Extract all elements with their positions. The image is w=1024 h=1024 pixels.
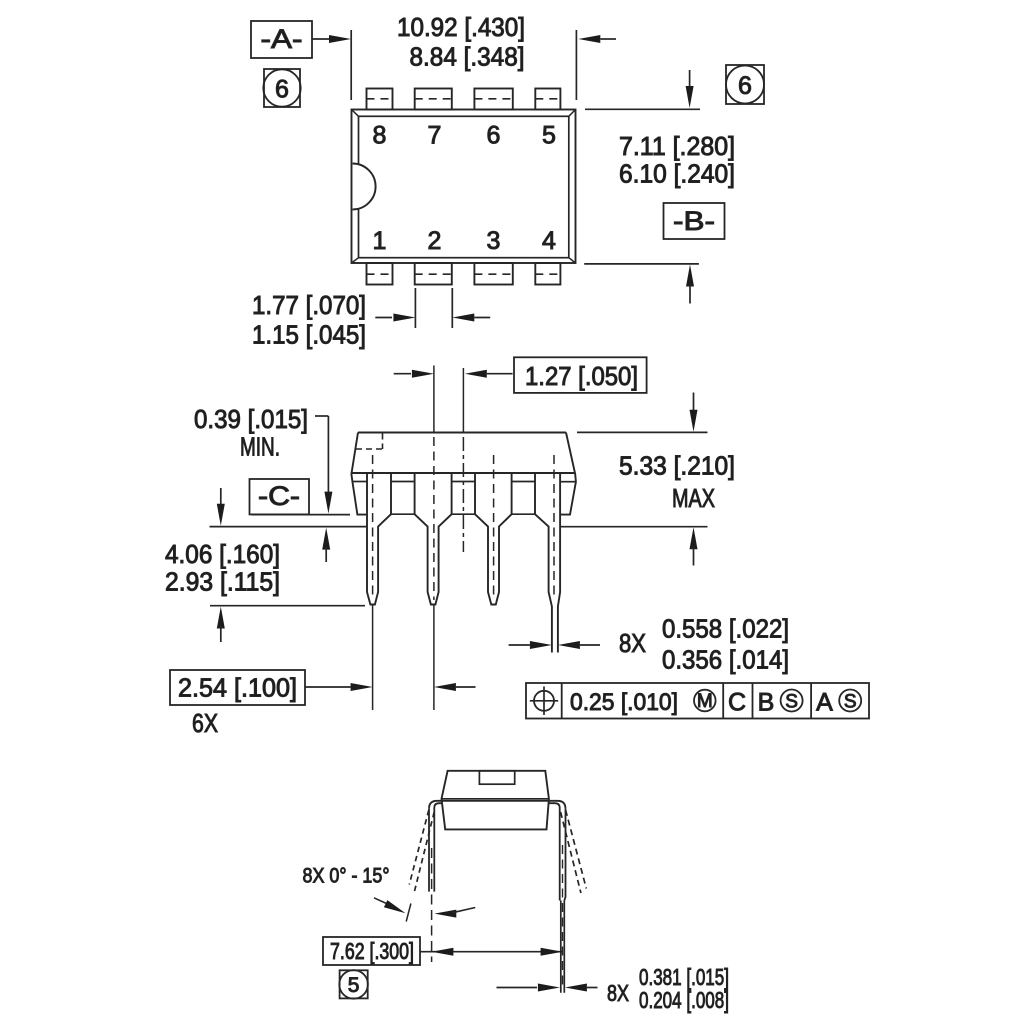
side view: body bottom datum line (252, 514, 351, 516)
svg-text:0.25 [.010]: 0.25 [.010] (570, 689, 678, 716)
top view: right extension line (575, 30, 577, 100)
svg-text:2: 2 (428, 227, 442, 255)
dimension 1.27 left arrow (394, 373, 411, 375)
side view: body right edge (560, 433, 576, 515)
top view: pin 2 right edge extension line (451, 288, 453, 328)
side view: body top edge (358, 432, 566, 434)
note 5 symbol: circle (339, 970, 368, 999)
end view: right lead inner edge (549, 803, 560, 900)
svg-text:0.39 [.015]: 0.39 [.015] (194, 404, 308, 434)
dimension 7.62 box (323, 937, 420, 965)
dimension 7.62 right arrow (541, 948, 563, 956)
svg-text:S: S (785, 692, 798, 713)
top view: package body outline (outer) (352, 110, 576, 264)
svg-text:5: 5 (348, 974, 360, 997)
svg-text:6: 6 (738, 72, 752, 100)
top view: pin 1 lead (bottom row) (367, 263, 393, 285)
note 6 symbol (left): circle (263, 69, 300, 106)
svg-text:MIN.: MIN. (240, 432, 280, 462)
dimension 7.11 bottom arrow (686, 265, 694, 287)
dimension 10.92 right arrow (578, 35, 600, 43)
dimension 0.381 right arrow (565, 984, 587, 992)
dimension 1.27 right arrow (465, 370, 487, 378)
dimension 1.27 box (514, 357, 647, 393)
side view: web bottom 1-2 (391, 513, 415, 515)
side view: web line right (560, 481, 576, 483)
side view: lead 3 (475, 473, 512, 605)
side view: lead 3 centerline (493, 455, 495, 600)
dimension 5.33 up arrow (690, 527, 698, 549)
top view: corner bevel bottom-left (352, 258, 359, 263)
svg-text:8X: 8X (607, 980, 629, 1006)
svg-text:1: 1 (373, 227, 387, 255)
svg-text:-A-: -A- (261, 24, 303, 54)
top view: pin 1 index notch (353, 164, 376, 210)
svg-text:1.27 [.050]: 1.27 [.050] (525, 361, 638, 391)
side view: lead tip extension line (210, 605, 365, 607)
dimension 0.558 right arrow (558, 641, 580, 649)
side view: web bottom 2-3 (452, 513, 475, 515)
side view: lead 4 (535, 473, 560, 653)
top view: pin 7 lead (top row) (415, 89, 452, 110)
dimension 2.54 left arrow (434, 683, 456, 691)
svg-text:5.33 [.210]: 5.33 [.210] (619, 451, 735, 481)
dimension 4.06 down arrow (220, 488, 222, 507)
svg-text:C: C (728, 689, 746, 717)
svg-text:7.62 [.300]: 7.62 [.300] (330, 938, 414, 964)
svg-text:7.11 [.280]: 7.11 [.280] (619, 131, 735, 161)
end view: body parting line (442, 798, 549, 800)
side view: web line 3-4 (512, 481, 535, 483)
dimension 7.11 top arrow (689, 70, 691, 90)
end view: left lead splayed position (phantom) inner (414, 812, 434, 892)
end view: top window rectangle (479, 771, 514, 784)
svg-text:6: 6 (487, 122, 501, 150)
svg-text:10.92 [.430]: 10.92 [.430] (397, 12, 525, 42)
svg-text:0.356 [.014]: 0.356 [.014] (662, 645, 789, 675)
dimension 0.39 leader (315, 415, 328, 417)
top view: pin 4 lead (bottom row) (535, 263, 560, 285)
side view: seating plane extension line (right) (560, 526, 707, 528)
svg-text:4.06 [.160]: 4.06 [.160] (165, 539, 280, 569)
feature control frame: M modifier circle (694, 690, 716, 712)
side view: web line left (352, 481, 367, 483)
svg-text:5: 5 (542, 122, 556, 150)
dimension 7.62 left arrow (431, 948, 453, 956)
side view: lead 1 centerline (372, 455, 374, 600)
svg-text:1.77 [.070]: 1.77 [.070] (252, 290, 366, 320)
svg-text:2.93 [.115]: 2.93 [.115] (165, 567, 280, 597)
svg-text:8: 8 (373, 122, 387, 150)
dimension 2.54 right arrow (305, 686, 351, 688)
svg-text:7: 7 (428, 122, 442, 150)
top view: package body outline (inner) (359, 116, 569, 257)
svg-text:-C-: -C- (258, 481, 300, 511)
side view: web bottom 3-4 (512, 513, 535, 515)
dimension 7.62 line (420, 951, 563, 953)
side view: lead 2 centerline / 1.27 extension (433, 366, 435, 434)
top view: corner bevel top-right (569, 110, 576, 117)
dimension 2.54 box (170, 670, 305, 705)
dimension 1.77 left arrow (375, 317, 392, 319)
side view: web line 2-3 (452, 481, 475, 483)
svg-text:6X: 6X (192, 708, 218, 738)
datum -A- leader arrow (312, 38, 330, 40)
end view: package body outline (442, 771, 549, 830)
feature control frame: cell dividers (561, 683, 563, 719)
end view: left lead outer edge (428, 809, 430, 892)
end view: left phantom extension (406, 904, 411, 922)
side view: body left edge (351, 433, 367, 515)
feature control frame: S modifier circle 1 (781, 690, 803, 712)
end view: right lead outer edge (564, 809, 565, 901)
note 6 symbol (right): square (726, 65, 764, 104)
side view: package centerline / 1.27 extension (462, 368, 464, 433)
top view: pin 2 left edge extension line (414, 288, 416, 328)
top view: corner bevel bottom-right (569, 258, 576, 263)
dimension 1.77 right arrow (452, 314, 474, 322)
side view: lead 4 centerline (553, 455, 555, 600)
svg-text:6: 6 (275, 76, 289, 104)
side view: body top extension line (right) (577, 431, 708, 433)
svg-text:-B-: -B- (673, 206, 715, 236)
end view: left lead centerline extension (431, 848, 433, 962)
datum -C- box (250, 479, 310, 514)
svg-text:8X 0° - 15°: 8X 0° - 15° (303, 865, 390, 888)
svg-text:8X: 8X (619, 628, 646, 658)
svg-text:M: M (697, 691, 713, 712)
feature control frame: outline (526, 683, 869, 719)
side view: seating plane line (210, 526, 368, 528)
top view: corner bevel top-left (352, 110, 359, 117)
dimension 0.558 left arrow (509, 644, 530, 646)
top view: left extension line (350, 30, 352, 100)
end view: left lead inner edge (434, 803, 441, 891)
angle leader line (374, 898, 388, 904)
dimension 0.381 left arrow (497, 987, 538, 989)
top view: pin 2 lead (bottom row) (415, 263, 452, 285)
top view: pin 3 lead (bottom row) (474, 263, 512, 285)
svg-text:0.558 [.022]: 0.558 [.022] (662, 614, 789, 644)
end view: right lead splayed position (phantom) outer (566, 810, 587, 889)
top view: pin 5 lead (top row) (535, 89, 560, 110)
feature control frame: position symbol (534, 691, 554, 711)
angle right arrow (434, 910, 456, 918)
top view: pin 6 lead (top row) (474, 89, 512, 110)
datum -B- box (664, 203, 725, 239)
svg-text:4: 4 (542, 227, 556, 255)
svg-text:B: B (758, 689, 775, 717)
datum -A- box (251, 21, 312, 58)
end view: leadframe top line (429, 801, 566, 809)
svg-text:0.204 [.008]: 0.204 [.008] (639, 987, 729, 1013)
end view: right lead splayed position (phantom) inner (561, 812, 581, 893)
top view: body top edge extension line (585, 108, 700, 110)
svg-text:6.10 [.240]: 6.10 [.240] (619, 159, 735, 189)
svg-text:2.54 [.100]: 2.54 [.100] (178, 673, 297, 703)
angle leader arrow (384, 900, 406, 913)
svg-text:MAX: MAX (672, 483, 715, 513)
svg-text:8.84 [.348]: 8.84 [.348] (410, 42, 525, 72)
top view: body bottom edge extension line (584, 263, 699, 265)
dimension 5.33 down arrow (693, 393, 695, 414)
side view: lead 1 (367, 473, 391, 605)
side view: lead 2 (415, 473, 452, 605)
top view: pin 8 lead (top row) (367, 89, 393, 110)
note 6 symbol (right): circle (726, 66, 764, 104)
end view: left lead splayed position (phantom) outer (409, 810, 429, 885)
side view: pin 1 chamfer (hidden) (382, 434, 384, 450)
side view: web line 1-2 (391, 481, 415, 483)
side view: body parting line (351, 472, 575, 474)
dimension 0.39 down arrow (324, 492, 332, 514)
dimension 0.39 up arrow (322, 528, 330, 550)
svg-text:3: 3 (487, 227, 501, 255)
dimension 4.06 up arrow (217, 607, 225, 629)
svg-text:1.15 [.045]: 1.15 [.045] (252, 320, 366, 350)
note 6 symbol (left): square (264, 69, 300, 107)
svg-text:S: S (844, 692, 857, 713)
feature control frame: S modifier circle 2 (839, 690, 861, 712)
note 5 symbol: square (340, 970, 368, 998)
end view: right lead centerline (562, 845, 564, 990)
end view: right lead tip extension (560, 901, 562, 993)
svg-text:A: A (816, 689, 833, 717)
